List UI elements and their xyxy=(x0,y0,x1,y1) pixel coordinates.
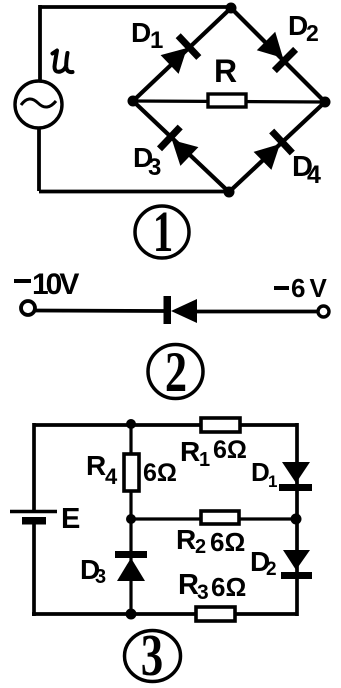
node: bridge top xyxy=(226,3,237,14)
resistor R1 xyxy=(201,418,240,432)
wire: bridge edge top-right (top node to right node) xyxy=(231,8,325,102)
node: bottom junction of D3 branch xyxy=(126,609,137,620)
label D3 xyxy=(133,142,161,181)
terminal -10V xyxy=(21,301,35,315)
label D2 xyxy=(288,10,319,46)
wire: bottom rail to bridge bottom xyxy=(39,190,229,194)
diode D2 xyxy=(281,550,312,579)
svg-text:10V: 10V xyxy=(32,268,79,301)
svg-text:E: E xyxy=(61,503,80,535)
wire: bridge middle (left node to right node) xyxy=(133,101,325,102)
wire: left segment xyxy=(35,309,164,313)
diode D (points left) xyxy=(164,296,198,324)
node: top junction of R4 branch xyxy=(126,419,136,429)
label D1 xyxy=(251,457,277,491)
ac source u xyxy=(15,81,62,128)
diode D1 xyxy=(161,36,199,74)
value 6Ω (R1) xyxy=(213,436,247,464)
wire: bridge edge left-bottom (left node to bottom node) xyxy=(133,101,229,192)
value 6Ω (R4) xyxy=(143,459,177,487)
label D1 xyxy=(131,17,163,54)
svg-text:3: 3 xyxy=(95,566,106,588)
wire: right rail xyxy=(295,423,299,616)
svg-text:1: 1 xyxy=(153,199,173,264)
label D2 xyxy=(250,546,277,580)
node: middle junction right xyxy=(291,514,302,525)
svg-text:R: R xyxy=(86,450,106,481)
label R2 xyxy=(176,524,206,558)
wire: left rail upper (to battery) xyxy=(32,423,36,511)
figure number 2 xyxy=(148,341,203,405)
svg-text:1: 1 xyxy=(268,472,277,491)
wire: top rail from source to bridge top xyxy=(40,5,231,9)
resistor R xyxy=(208,94,246,107)
battery E xyxy=(10,512,57,525)
resistor R2 xyxy=(201,511,239,524)
label R4 xyxy=(86,450,118,489)
svg-text:2: 2 xyxy=(306,20,319,46)
diode D4 xyxy=(254,131,293,170)
diode D1 xyxy=(279,462,312,491)
wire: left rail upper (source to top rail) xyxy=(38,5,42,81)
svg-text:R: R xyxy=(214,53,237,89)
svg-text:R: R xyxy=(180,436,200,467)
svg-text:6Ω: 6Ω xyxy=(143,459,177,487)
svg-text:6V: 6V xyxy=(291,273,331,303)
wire: top rail xyxy=(34,423,297,427)
svg-text:2: 2 xyxy=(195,536,206,558)
svg-text:1: 1 xyxy=(150,27,163,54)
svg-text:R: R xyxy=(176,524,196,555)
wire: R4 branch vertical xyxy=(129,424,132,519)
label E xyxy=(61,503,80,535)
diode D3 xyxy=(160,127,199,166)
svg-text:6Ω: 6Ω xyxy=(211,572,246,602)
label R3 xyxy=(178,569,209,604)
svg-text:1: 1 xyxy=(199,449,210,471)
node: bridge bottom xyxy=(224,187,235,198)
svg-text:D: D xyxy=(251,457,270,487)
label D4 xyxy=(292,151,321,189)
svg-text:3: 3 xyxy=(197,581,209,604)
svg-text:6Ω: 6Ω xyxy=(213,436,247,464)
svg-text:4: 4 xyxy=(105,464,118,489)
terminal -6V xyxy=(318,306,329,317)
label R1 xyxy=(180,436,210,471)
wire: bridge edge bottom-right (bottom node to right node) xyxy=(229,102,325,192)
label u xyxy=(53,51,73,73)
svg-text:D: D xyxy=(131,17,151,48)
value 6Ω (R2) xyxy=(210,527,245,557)
figure number 3 xyxy=(125,623,181,688)
svg-text:2: 2 xyxy=(266,559,277,580)
wire: left rail lower (battery to bottom) xyxy=(32,524,36,616)
node: bridge left xyxy=(128,96,139,107)
svg-text:R: R xyxy=(178,569,199,601)
wire: left rail lower (source to bottom rail) xyxy=(37,128,41,191)
node: middle junction left xyxy=(126,514,136,524)
svg-text:6Ω: 6Ω xyxy=(210,527,245,557)
label -10V xyxy=(14,268,79,301)
diode D2 xyxy=(257,32,296,71)
resistor R4 xyxy=(124,454,139,491)
svg-text:3: 3 xyxy=(141,623,163,688)
wire: bridge edge left-top (left node to top node) xyxy=(133,8,231,101)
label D3 xyxy=(80,554,106,588)
diode D3 xyxy=(115,551,147,581)
svg-text:2: 2 xyxy=(165,341,187,405)
label R xyxy=(214,53,237,89)
svg-text:4: 4 xyxy=(307,161,321,189)
value 6Ω (R3) xyxy=(211,572,246,602)
label -6V xyxy=(274,273,331,303)
wire: D3 branch vertical xyxy=(129,519,132,614)
wire: right segment xyxy=(197,310,318,314)
resistor R3 xyxy=(196,607,235,621)
wire: middle rail xyxy=(131,517,297,520)
node: bridge right xyxy=(320,97,331,108)
figure number 1 xyxy=(135,199,189,264)
wire: bottom rail xyxy=(32,612,297,616)
svg-text:3: 3 xyxy=(148,154,161,181)
